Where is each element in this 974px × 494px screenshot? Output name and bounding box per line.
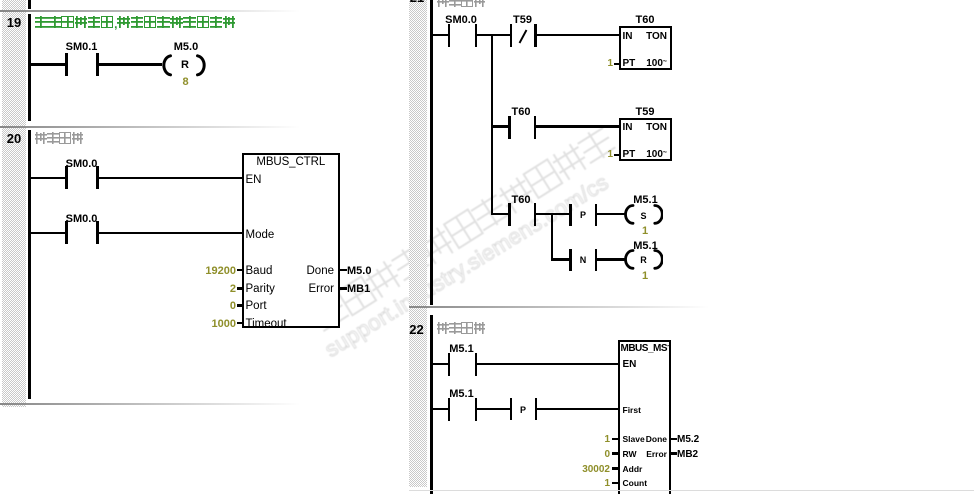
tick PT input	[614, 63, 619, 65]
wire n21 rung2 branch to T60 contact	[491, 125, 510, 127]
network number 19	[2, 15, 26, 30]
label 100ms	[628, 149, 667, 160]
operand M5.2	[677, 434, 699, 445]
pin PT (T60)	[623, 58, 636, 69]
pin EN (MBUS_CTRL)	[246, 174, 262, 186]
wire n21 rung4 branch to N contact	[551, 258, 571, 260]
wire contact to coil	[98, 63, 162, 65]
contact SM0.1	[65, 53, 68, 76]
network number band left	[2, 0, 26, 407]
wire contact to EN	[98, 177, 244, 179]
contact P (positive edge)	[569, 204, 572, 226]
tick RW input	[612, 452, 618, 454]
network 20 comment (gray)	[35, 131, 84, 149]
wire P to S coil	[597, 213, 625, 215]
coil M5.0 (R)	[160, 54, 208, 77]
wire rung2 rail to contact	[30, 232, 66, 234]
pin Port	[246, 300, 267, 312]
network 19 separator	[0, 10, 300, 12]
pin Done	[620, 434, 667, 444]
wire to P contact	[477, 408, 510, 410]
network 19 left power rail	[28, 14, 31, 121]
wire rung19 rail to contact	[30, 63, 66, 65]
label TON	[628, 31, 667, 42]
label 100ms	[628, 58, 667, 69]
network number 21 (cut at top)	[406, 0, 428, 5]
contact SM0.0 n21	[448, 24, 451, 47]
network 20 left power rail	[28, 130, 31, 399]
function box MBUS_CTRL	[242, 153, 340, 328]
pin Addr	[623, 464, 643, 474]
pin PT (T59)	[623, 149, 636, 160]
wire contact to EN of MBUS_MS	[477, 363, 618, 365]
value 1	[580, 478, 610, 489]
contact SM0.0 (rung1)	[65, 166, 68, 189]
tick Parity input	[237, 287, 244, 289]
wire contact to Mode	[98, 232, 244, 234]
value 2	[196, 283, 236, 295]
contact P n22	[510, 398, 513, 420]
value 1	[580, 434, 610, 445]
tick Done output	[340, 269, 347, 271]
tick Timeout input	[237, 322, 244, 324]
wire to P branch junction	[536, 213, 571, 215]
value 8 under coil	[182, 76, 188, 88]
pin Timeout	[246, 318, 287, 330]
value 0	[196, 300, 236, 312]
coil M5.1 (R)	[623, 249, 663, 270]
function box MBUS_MSG	[618, 340, 671, 494]
network 21 separator (left pane bottom)	[0, 403, 300, 405]
network 21 left power rail	[430, 0, 433, 305]
tick PT input	[614, 154, 619, 156]
contact SM0.0 (rung2)	[65, 221, 68, 244]
value 0	[580, 449, 610, 460]
contact M5.1 (rung2)	[448, 398, 451, 421]
network 19 comment (green)	[35, 15, 236, 33]
pin Parity	[246, 283, 275, 295]
wire N to R coil	[597, 258, 625, 260]
network 22 left power rail	[430, 315, 433, 494]
coil M5.1 (S)	[623, 204, 663, 225]
contact T59 (NC)	[510, 24, 513, 47]
value 1000	[196, 318, 236, 330]
network number band right	[409, 0, 427, 487]
operand MB2	[677, 449, 698, 460]
pin Done	[286, 265, 334, 277]
operand M5.0	[347, 265, 371, 277]
operand MB1	[347, 283, 370, 295]
wire rung1 rail to contact	[30, 177, 66, 179]
pin IN (T60)	[623, 31, 633, 42]
network 22 comment (gray)	[437, 321, 486, 339]
pin Slave	[623, 434, 645, 444]
pin First	[623, 405, 641, 415]
pin EN (MBUS_MSG)	[623, 359, 637, 370]
watermark line 1 (Chinese)	[309, 124, 618, 334]
network 22 separator	[409, 306, 709, 308]
wire T60 contact to T59 box	[536, 125, 619, 127]
tick Error output	[340, 287, 347, 289]
pin Baud	[246, 265, 273, 277]
network number 20	[2, 131, 26, 146]
timer box T59 TON	[619, 118, 672, 161]
wire n22 rung2 rail to contact	[432, 408, 448, 410]
faint bottom line	[409, 490, 974, 492]
branch vertical wire	[491, 34, 493, 215]
wire n22 rung1 rail to contact	[432, 363, 448, 365]
wire n21 rung3 branch to T60 contact	[491, 213, 510, 215]
tick Count input	[612, 482, 618, 484]
value 1	[603, 149, 613, 160]
pin Error	[620, 449, 667, 459]
network 21 comment (cut at top)	[437, 0, 486, 12]
wire n21 rung1 rail to contact	[432, 34, 448, 36]
wire to T59 contact with branch junction	[477, 34, 510, 36]
pin Error	[286, 283, 334, 295]
pin RW	[623, 449, 637, 459]
contact N (negative edge)	[569, 249, 572, 271]
branch vertical wire rung3-rung4	[551, 213, 553, 259]
tick Baud input	[237, 269, 244, 271]
value 1	[603, 58, 613, 69]
wire stub of previous network rail	[28, 0, 31, 9]
wire P to First	[537, 408, 618, 410]
wire T59 contact to T60 box	[537, 34, 619, 36]
tick Port input	[237, 304, 244, 306]
network number 22	[405, 322, 429, 337]
contact T60 (rung2)	[508, 116, 511, 139]
watermark line 2 (url)	[320, 170, 613, 364]
tick Addr input	[612, 467, 618, 469]
value 30002	[580, 464, 610, 475]
tick Slave input	[612, 438, 618, 440]
tick Done output	[671, 438, 677, 440]
label TON	[628, 122, 667, 133]
contact M5.1 (rung1)	[448, 353, 451, 376]
tick Error output	[671, 452, 677, 454]
pin IN (T59)	[623, 122, 633, 133]
pin Mode	[246, 229, 275, 241]
contact T60 (rung3)	[508, 203, 511, 226]
timer box T60 TON	[619, 26, 672, 70]
pin Count	[623, 478, 648, 488]
value 19200	[196, 265, 236, 277]
network 20 separator	[0, 126, 300, 128]
